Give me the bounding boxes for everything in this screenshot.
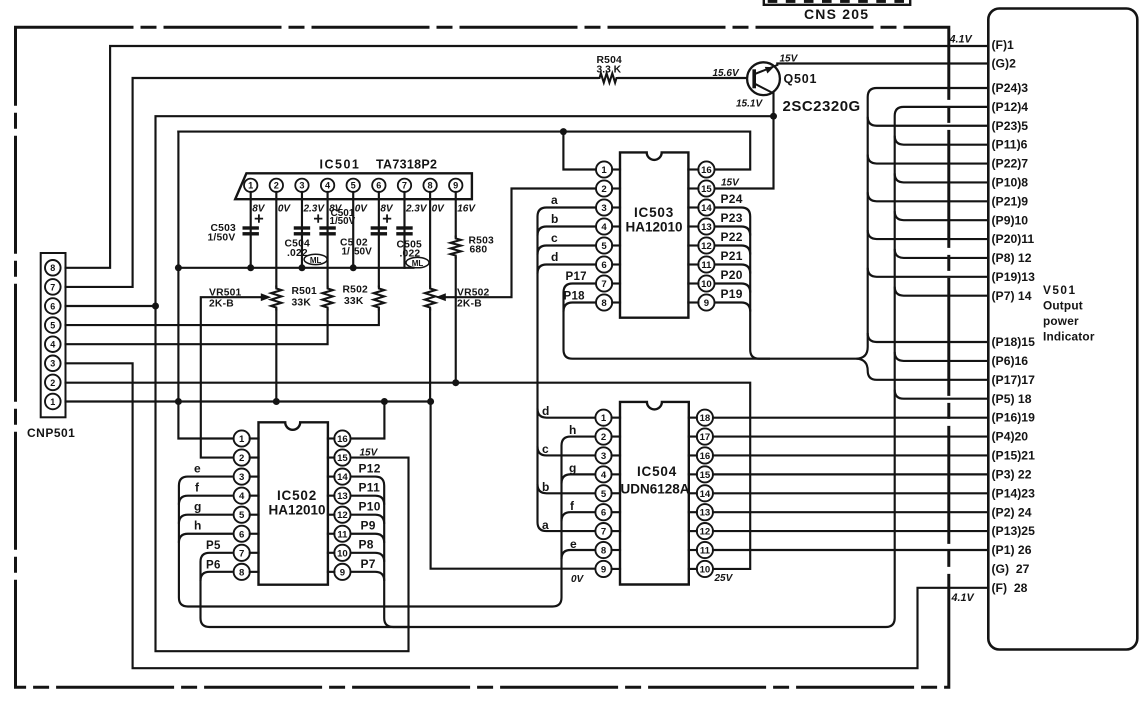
pin 6 of CNP501: [45, 298, 61, 314]
svg-text:2: 2: [601, 432, 606, 443]
wire IC501 pin 6 down through R-C: [378, 192, 380, 287]
wire Q501 emitter riser to IC503 pin 15: [715, 93, 773, 189]
svg-text:13: 13: [700, 508, 711, 519]
svg-text:9: 9: [601, 564, 606, 575]
svg-text:5: 5: [601, 241, 607, 252]
svg-text:0V: 0V: [432, 204, 446, 215]
svg-text:ML: ML: [310, 256, 322, 265]
svg-text:4.1V: 4.1V: [951, 592, 975, 604]
wire IC501 pin 4 down through R502: [327, 192, 329, 287]
svg-text:(P15)21: (P15)21: [992, 449, 1036, 463]
svg-text:14: 14: [701, 203, 712, 214]
dash-dot board outline border: [16, 27, 949, 687]
svg-text:P22: P22: [721, 230, 743, 244]
svg-text:(P22)7: (P22)7: [992, 157, 1029, 171]
pin 5 of IC502: [234, 507, 250, 523]
svg-text:(P16)19: (P16)19: [992, 411, 1036, 425]
pin 7 of IC501: [398, 179, 411, 192]
svg-text:(P21)9: (P21)9: [992, 194, 1029, 208]
svg-text:15: 15: [701, 184, 712, 195]
svg-text:10: 10: [700, 564, 711, 575]
wire c exit bundle to IC504 pin 3: [538, 446, 595, 455]
svg-text:b: b: [542, 480, 550, 494]
svg-text:16: 16: [701, 165, 712, 176]
junction ground bus at vertical: [175, 264, 182, 271]
wire V1 riser exit to V501 pin row 5: [868, 117, 989, 126]
svg-text:5: 5: [351, 181, 356, 191]
svg-text:5: 5: [50, 321, 55, 331]
pin 3 of IC502: [234, 469, 250, 485]
svg-text:15.1V: 15.1V: [736, 99, 763, 110]
svg-text:(P17)17: (P17)17: [992, 373, 1036, 387]
svg-text:2: 2: [274, 181, 279, 191]
svg-text:P12: P12: [359, 462, 381, 476]
junction ground vertical at IC502 bus: [175, 398, 182, 405]
pin 1 of CNP501: [45, 394, 61, 410]
wire P21 join bundle: [715, 265, 751, 274]
wire CNP501 pin 8 to V501 pin (F)1: [66, 46, 989, 268]
pin 6 of IC501: [372, 179, 385, 192]
svg-text:8V: 8V: [252, 204, 266, 215]
svg-text:P18: P18: [564, 291, 586, 303]
junction IC502 pin16 riser at IC502 bus: [381, 398, 388, 405]
svg-text:P24: P24: [721, 192, 743, 206]
pin 4 of CNP501: [45, 336, 61, 352]
pin 6 of IC504: [595, 504, 611, 520]
svg-text:1/50V: 1/50V: [208, 233, 236, 244]
wire d exit bundle to IC504 pin 1: [538, 409, 595, 418]
svg-text:16V: 16V: [457, 204, 476, 215]
svg-text:IC504: IC504: [637, 464, 677, 479]
svg-text:2: 2: [50, 378, 55, 388]
junction C503 at bus: [247, 264, 254, 271]
pin 9 of IC501: [449, 179, 462, 192]
wire c join bundle: [538, 246, 597, 255]
svg-text:10: 10: [337, 548, 348, 559]
svg-text:0V: 0V: [571, 574, 585, 585]
pin 4 of IC501: [321, 179, 334, 192]
svg-text:(P6)16: (P6)16: [992, 354, 1029, 368]
pin 5 of IC501: [347, 179, 360, 192]
svg-text:680: 680: [470, 245, 488, 256]
pin 8 of IC504: [595, 542, 611, 558]
pin 14 of IC504: [697, 485, 713, 501]
svg-text:9: 9: [340, 567, 345, 578]
wire 0V riser from IC502 bus to IC504 pin 9: [431, 402, 595, 569]
wire V1 riser exit to V501 pin row 13: [868, 268, 989, 277]
resistor R502 33K on IC501 pin 6 line: [374, 287, 384, 310]
pin 9 of IC502: [334, 564, 350, 580]
wire CNP501 pin 1 to ground vertical and IC502 bus: [66, 400, 431, 402]
junction CNP501 pin 6 15V: [152, 303, 159, 310]
svg-text:4: 4: [50, 340, 55, 350]
svg-text:16: 16: [700, 451, 711, 462]
svg-text:1: 1: [50, 397, 55, 407]
IC IC504 UDN6128A package: [620, 402, 689, 585]
svg-text:V501: V501: [1043, 283, 1077, 297]
capacitor C501 1/50V on IC501 pin 4: [319, 226, 335, 229]
pin 18 of IC504: [697, 410, 713, 426]
svg-text:(P11)6: (P11)6: [992, 138, 1028, 152]
wire g exit bundle to IC504 pin 4: [562, 474, 595, 483]
svg-text:R501: R501: [292, 286, 317, 297]
junction Q501 emitter 15V: [770, 113, 777, 120]
pin 14 of IC502: [334, 469, 350, 485]
pin 1 of IC502: [234, 430, 250, 446]
pin 1 of IC504: [595, 410, 611, 426]
potentiometer VR501 2K-B element on IC501 pin 2 line: [271, 287, 281, 310]
svg-text:(P8) 12: (P8) 12: [992, 251, 1032, 265]
svg-text:HA12010: HA12010: [625, 220, 682, 235]
svg-text:2: 2: [239, 453, 244, 464]
svg-text:c: c: [542, 442, 549, 456]
svg-text:3.3 K: 3.3 K: [597, 65, 622, 76]
svg-text:1: 1: [601, 413, 607, 424]
junction R503 at 25V line: [452, 379, 459, 386]
svg-text:a: a: [551, 193, 558, 207]
svg-text:(P12)4: (P12)4: [992, 100, 1029, 114]
wire IC503 top bus pins 1 and 16: [178, 132, 750, 170]
svg-text:P19: P19: [721, 287, 743, 301]
svg-text:(P23)5: (P23)5: [992, 119, 1029, 133]
svg-text:12: 12: [337, 510, 348, 521]
svg-text:2.3V: 2.3V: [405, 204, 428, 215]
svg-text:15V: 15V: [360, 448, 379, 459]
pin 10 of IC503: [698, 275, 714, 291]
pin 7 of IC503: [596, 275, 612, 291]
pin 10 of IC502: [334, 545, 350, 561]
wire b exit bundle to IC504 pin 5: [538, 484, 595, 493]
pin 8 of IC503: [596, 294, 612, 310]
pin 7 of CNP501: [45, 279, 61, 295]
wire b join bundle: [538, 227, 597, 236]
wire bundle fork down to V501 pin (P17)17: [857, 359, 989, 380]
capacitor C503 1/50V on IC501 pin 1: [243, 226, 259, 229]
svg-text:14: 14: [337, 472, 348, 483]
wire V2 riser exit to V501 pin row 14: [895, 287, 989, 296]
arrow VR501 wiper: [261, 293, 271, 301]
svg-text:(F) 28: (F) 28: [992, 581, 1028, 595]
svg-text:power: power: [1043, 314, 1079, 328]
svg-text:(G) 27: (G) 27: [992, 562, 1030, 576]
wire IC504 pin 18 to V501 pin row 19: [713, 417, 988, 419]
wire P7 join bundle: [351, 572, 385, 581]
svg-text:1: 1: [601, 165, 607, 176]
svg-text:HA12010: HA12010: [268, 503, 325, 518]
junction 0V riser at IC502 bus: [427, 398, 434, 405]
svg-text:8V: 8V: [380, 204, 394, 215]
pin 16 of IC502: [334, 430, 350, 446]
svg-text:(P24)3: (P24)3: [992, 81, 1029, 95]
svg-text:11: 11: [337, 529, 348, 540]
svg-text:12: 12: [701, 241, 712, 252]
wire CNP501 pin 6 15V net riser: [66, 116, 774, 651]
connector CNS205 (partially visible at top): [764, 0, 910, 5]
pin 12 of IC502: [334, 507, 350, 523]
pin 6 of IC503: [596, 256, 612, 272]
wire P6 from IC502 pin 8 join bundle: [201, 572, 233, 581]
pin 8 of IC502: [234, 564, 250, 580]
svg-text:3: 3: [50, 359, 55, 369]
svg-text:Indicator: Indicator: [1043, 330, 1095, 344]
svg-text:g: g: [194, 500, 202, 514]
svg-text:e: e: [194, 462, 201, 476]
svg-text:R502: R502: [343, 285, 368, 296]
arrow VR502 wiper: [435, 293, 445, 301]
wire IC504 pin 11 to V501 pin row 26: [713, 549, 988, 551]
wire P19 join bundle: [715, 303, 751, 312]
wire V1 riser exit to V501 pin row 7: [868, 155, 989, 164]
svg-text:6: 6: [601, 508, 606, 519]
wire IC504 pin 13 to V501 pin row 24: [713, 511, 988, 513]
pin 13 of IC504: [697, 504, 713, 520]
svg-text:d: d: [542, 404, 550, 418]
svg-text:9: 9: [453, 181, 458, 191]
pin 2 of IC501: [270, 179, 283, 192]
wire CNP501 pin 2 25V line to IC504 pin 10: [66, 383, 751, 569]
svg-text:ML: ML: [412, 259, 424, 268]
svg-text:(P10)8: (P10)8: [992, 176, 1029, 190]
wire V2 riser exit to V501 pin row 6: [895, 136, 989, 145]
pin 2 of IC503: [596, 180, 612, 196]
wire V2 riser exit to V501 pin row 10: [895, 211, 989, 220]
svg-text:4: 4: [239, 491, 245, 502]
svg-text:b: b: [551, 212, 559, 226]
wire IC501 pin 5 to ground bus: [352, 192, 354, 268]
wire IC501 pin 1 to ground bus: [250, 192, 252, 268]
pin 17 of IC504: [697, 428, 713, 444]
pin 12 of IC504: [697, 523, 713, 539]
svg-text:1: 1: [248, 181, 253, 191]
pin 2 of IC502: [234, 449, 250, 465]
ML marking ellipse for C505: [406, 257, 429, 267]
pin 3 of IC503: [596, 199, 612, 215]
wire P24 bundle from IC503 pin 14 down to indicator bus: [715, 208, 771, 359]
pin 6 of IC502: [234, 526, 250, 542]
pin 15 of IC504: [697, 466, 713, 482]
svg-text:8: 8: [239, 567, 245, 578]
svg-text:(P14)23: (P14)23: [992, 486, 1036, 500]
svg-text:P10: P10: [359, 500, 381, 514]
svg-text:4: 4: [601, 222, 607, 233]
svg-text:2SC2320G: 2SC2320G: [783, 98, 861, 115]
pin 3 of IC501: [295, 179, 308, 192]
wire Q501 collector to V501 pin (G)2: [777, 62, 988, 64]
svg-text:11: 11: [700, 546, 711, 557]
pin 5 of IC504: [595, 485, 611, 501]
svg-text:(P7) 14: (P7) 14: [992, 289, 1032, 303]
pin 3 of IC504: [595, 447, 611, 463]
potentiometer VR502 2K-B element on IC501 pin 8 line: [425, 287, 435, 310]
wire P11 join bundle: [351, 496, 385, 505]
wire h join bundle: [179, 534, 233, 543]
svg-text:h: h: [569, 423, 577, 437]
svg-text:(P20)11: (P20)11: [992, 232, 1035, 246]
wire ground bus under IC501: [178, 267, 413, 269]
svg-text:15: 15: [700, 470, 711, 481]
svg-text:(P2) 24: (P2) 24: [992, 505, 1032, 519]
wire ground vertical to IC503 bus corner: [178, 132, 233, 439]
pin 1 of IC503: [596, 161, 612, 177]
svg-text:IC503: IC503: [634, 205, 674, 220]
svg-text:(P4)20: (P4)20: [992, 430, 1029, 444]
svg-text:15.6V: 15.6V: [713, 68, 740, 79]
junction IC503 pin 1 riser at top bus: [560, 128, 567, 135]
pin 9 of IC504: [595, 561, 611, 577]
svg-text:3: 3: [239, 472, 244, 483]
resistor R503 680 on IC501 pin 9 line: [451, 237, 461, 258]
svg-text:25V: 25V: [714, 573, 734, 584]
svg-text:P5: P5: [206, 540, 221, 552]
indicator module V501 box: [988, 9, 1137, 650]
wire bundle e f g h from IC502 to IC504: [179, 437, 595, 607]
pin 8 of IC501: [423, 179, 436, 192]
svg-text:15V: 15V: [721, 178, 740, 189]
pin 11 of IC503: [698, 256, 714, 272]
pin 16 of IC503: [698, 161, 714, 177]
wire e exit bundle to IC504 pin 8: [562, 550, 595, 559]
pin 13 of IC502: [334, 488, 350, 504]
svg-text:8: 8: [601, 298, 607, 309]
pin 12 of IC503: [698, 237, 714, 253]
svg-text:10: 10: [701, 279, 712, 290]
wire VR501 wiper to IC502 pin 2: [201, 297, 263, 457]
svg-text:CNP501: CNP501: [27, 426, 75, 440]
label V501 Output power Indicator: [1043, 283, 1095, 344]
svg-text:8: 8: [50, 263, 55, 273]
svg-text:(P19)13: (P19)13: [992, 270, 1036, 284]
svg-text:16: 16: [337, 434, 348, 445]
wire IC504 pin 16 to V501 pin row 21: [713, 454, 988, 456]
pin 13 of IC503: [698, 218, 714, 234]
svg-text:(F)1: (F)1: [992, 38, 1015, 52]
pin 15 of IC502: [334, 449, 350, 465]
svg-text:f: f: [570, 499, 575, 513]
svg-text:3: 3: [601, 203, 606, 214]
svg-text:d: d: [551, 250, 559, 264]
svg-text:7: 7: [402, 181, 407, 191]
junction C504 at bus: [298, 264, 305, 271]
svg-text:7: 7: [239, 548, 244, 559]
wire IC501 pin 2 down through R501 to IC502 bus: [275, 192, 277, 402]
svg-text:h: h: [194, 519, 202, 533]
svg-text:P7: P7: [361, 557, 376, 571]
svg-text:(G)2: (G)2: [992, 57, 1017, 71]
svg-text:g: g: [569, 461, 577, 475]
svg-text:4: 4: [325, 181, 331, 191]
wire V1 riser exit to V501 pin row 15: [868, 333, 989, 342]
svg-text:7: 7: [50, 282, 55, 292]
svg-text:6: 6: [601, 260, 606, 271]
capacitor C505 .022 on IC501 pin 7: [396, 226, 412, 229]
svg-text:P17: P17: [566, 271, 587, 283]
svg-text:6: 6: [50, 301, 55, 311]
pin 2 of IC504: [595, 428, 611, 444]
svg-text:4: 4: [601, 470, 607, 481]
wire IC501 pin 3 to ground bus: [301, 192, 303, 268]
svg-text:17: 17: [700, 432, 711, 443]
wire bundle a b c d from IC503 to IC504: [538, 208, 597, 532]
wire VR502 wiper to IC503 pin 2: [445, 189, 596, 298]
pin 1 of IC501: [244, 179, 257, 192]
svg-text:(P18)15: (P18)15: [992, 335, 1036, 349]
svg-text:13: 13: [337, 491, 348, 502]
svg-text:4.1V: 4.1V: [949, 34, 973, 46]
svg-text:a: a: [542, 518, 549, 532]
svg-text:(P5) 18: (P5) 18: [992, 392, 1032, 406]
svg-text:P21: P21: [721, 249, 743, 263]
wire V1 riser exit to V501 pin row 9: [868, 192, 989, 201]
svg-text:5: 5: [239, 510, 245, 521]
ML marking ellipse for C504: [304, 254, 327, 264]
resistor R501 33K on IC501 pin 4 line: [322, 287, 332, 310]
pin 14 of IC503: [698, 199, 714, 215]
svg-text:P8: P8: [359, 538, 374, 552]
svg-text:6: 6: [376, 181, 381, 191]
wire R-C bottom to CNP501 pin 5: [66, 310, 379, 326]
svg-text:P23: P23: [721, 211, 743, 225]
svg-text:c: c: [551, 231, 558, 245]
wire R504 to Q501 base: [619, 77, 753, 79]
svg-text:TA7318P2: TA7318P2: [376, 158, 437, 172]
svg-text:e: e: [570, 537, 577, 551]
wire IC501 pin 7 to ground bus: [403, 192, 405, 268]
wire IC504 pin 14 to V501 pin row 23: [713, 492, 988, 494]
wire P5 from IC502 pin 7 bundle down to long return line: [201, 107, 989, 627]
wire CNP501 pin 3 to V501 pin (F)28: [66, 363, 989, 668]
capacitor C502 1/50V on IC501 pin 6: [371, 226, 387, 229]
wire IC504 pin 12 to V501 pin row 25: [713, 530, 988, 532]
wire R502 bottom to CNP501 pin 4: [66, 310, 328, 345]
svg-text:3: 3: [601, 451, 606, 462]
svg-text:0V: 0V: [355, 204, 369, 215]
svg-text:0V: 0V: [278, 204, 292, 215]
IC IC501 TA7318P2 package: [235, 173, 472, 199]
wire V2 riser exit to V501 pin row 16: [895, 352, 989, 361]
pin 11 of IC502: [334, 526, 350, 542]
svg-text:P9: P9: [361, 519, 376, 533]
svg-text:18: 18: [700, 413, 711, 424]
svg-text:15: 15: [337, 453, 348, 464]
svg-text:5: 5: [601, 489, 607, 500]
svg-text:2: 2: [601, 184, 606, 195]
svg-text:33K: 33K: [292, 298, 312, 309]
wire f exit bundle to IC504 pin 6: [562, 512, 595, 521]
svg-text:2K-B: 2K-B: [457, 299, 482, 310]
svg-text:8: 8: [601, 546, 607, 557]
wire V2 riser exit to V501 pin row 18: [895, 390, 989, 399]
wire IC504 pin 17 to V501 pin row 20: [713, 435, 988, 437]
svg-text:CNS 205: CNS 205: [804, 6, 869, 22]
wire bundle fork up to V1 riser and V501 pin (P24)3: [857, 88, 989, 359]
pin 2 of CNP501: [45, 375, 61, 391]
svg-text:11: 11: [701, 260, 712, 271]
pin 8 of CNP501: [45, 260, 61, 276]
pin 15 of IC503: [698, 180, 714, 196]
svg-text:13: 13: [701, 222, 712, 233]
wire P17 from IC503 pin 7 to bundle: [564, 284, 857, 359]
pin 7 of IC502: [234, 545, 250, 561]
pin 10 of IC504: [697, 561, 713, 577]
wire P22 join bundle: [715, 246, 751, 255]
svg-text:f: f: [195, 481, 200, 495]
wire IC502 pin 16 riser to bus: [351, 402, 384, 439]
wire V2 riser exit to V501 pin row 12: [895, 249, 989, 258]
svg-text:50V: 50V: [354, 247, 372, 258]
svg-text:2K-B: 2K-B: [209, 299, 234, 310]
pin 5 of CNP501: [45, 317, 61, 333]
svg-text:33K: 33K: [344, 296, 364, 307]
